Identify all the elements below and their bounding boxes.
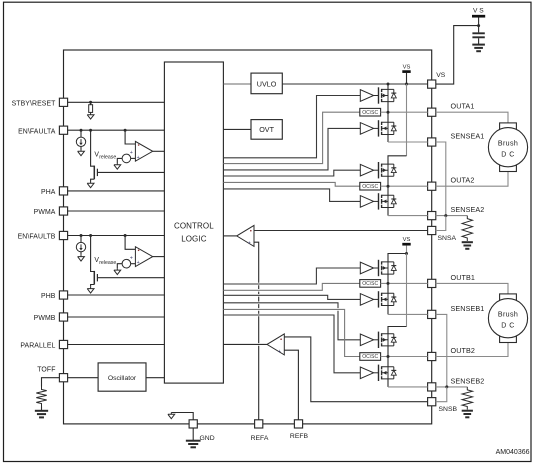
svg-text:OVT: OVT — [259, 125, 274, 134]
wire PHA to control logic — [68, 190, 165, 192]
VS supply symbol bridge B — [402, 237, 410, 254]
wire B low-side 1 source to SENSEB1 — [388, 306, 428, 315]
brush DC motor B — [488, 294, 527, 343]
wire VS to bridge A high-side 2 drain — [388, 84, 407, 164]
svg-text:+: + — [137, 260, 140, 266]
wire OUTA1 node — [381, 111, 428, 114]
wire UVLO to VS rail — [282, 83, 427, 85]
bus wire B low-side 1 gate — [223, 295, 360, 299]
fault comparator B — [135, 247, 152, 267]
V_release reference source B — [117, 255, 135, 268]
svg-text:PWMA: PWMA — [34, 209, 56, 216]
svg-text:OC\SC: OC\SC — [362, 110, 378, 116]
wire PHB to control logic — [68, 294, 165, 296]
svg-text:D C: D C — [501, 323, 515, 330]
wire TOFF to oscillator — [68, 377, 99, 379]
OC/SC block A1 — [360, 108, 381, 116]
svg-text:+: + — [130, 150, 133, 156]
bus wire A high-side 2 gate — [223, 170, 360, 176]
svg-text:SENSEA1: SENSEA1 — [451, 131, 485, 140]
pin OUTA2 — [428, 176, 475, 191]
pin TOFF — [37, 367, 67, 382]
pin SENSEA2 — [428, 205, 485, 220]
wire SENSEA1 to sense node A — [436, 142, 446, 216]
svg-text:+: + — [137, 155, 140, 161]
wire REFB to comparator B — [284, 350, 298, 420]
brush DC motor A — [488, 123, 527, 172]
sense comparator A — [237, 225, 254, 246]
svg-text:EN\FAULTB: EN\FAULTB — [18, 234, 56, 241]
wire PARALLEL to control logic — [68, 344, 165, 346]
wire A high-side 1 source to OUTA1 — [387, 102, 389, 113]
node sense B junction — [445, 385, 448, 388]
wire comparator A output to control logic — [223, 235, 236, 237]
fault comparator A — [135, 141, 152, 161]
wire SENSEB2 to sense resistor B — [436, 386, 468, 388]
svg-text:REFA: REFA — [251, 435, 269, 442]
VS supply symbol bridge A — [402, 64, 410, 84]
bus wire B low-side 2 gate — [223, 315, 360, 373]
release-switch MOSFET QB — [89, 234, 97, 287]
wire EN fault to comparator A input — [124, 129, 136, 144]
svg-text:PARALLEL: PARALLEL — [20, 343, 55, 350]
svg-text:PHB: PHB — [41, 293, 56, 300]
current source IA — [76, 129, 85, 150]
wire VS to bridge B high-side 1 drain — [388, 254, 407, 262]
pin PWMB — [34, 313, 68, 322]
svg-text:VS: VS — [403, 237, 411, 243]
release-switch MOSFET QA — [89, 129, 97, 182]
VS supply symbol top — [472, 8, 485, 33]
svg-text:UVLO: UVLO — [257, 80, 277, 89]
wire SNSA to comparator A — [254, 230, 428, 232]
wire A low-side 2 source to SENSEA2 — [388, 208, 428, 216]
wire OUTA2 to A low-side 2 drain — [387, 186, 389, 195]
wire SENSEA2 to sense resistor A — [436, 215, 468, 217]
svg-text:release: release — [99, 260, 116, 266]
wire REFA to comparator A — [254, 242, 259, 420]
gate driver and MOSFET A low-side 1 — [360, 120, 396, 136]
pull-down resistor on STBY\RESET — [89, 101, 93, 113]
svg-text:release: release — [99, 155, 116, 161]
svg-text:SENSEA2: SENSEA2 — [451, 205, 485, 214]
wire A high-side 2 source to OUTA2 — [387, 176, 389, 186]
svg-text:Oscillator: Oscillator — [108, 375, 137, 382]
V_release label A — [94, 152, 116, 161]
wire sense node B to SNSB pin — [436, 387, 447, 402]
OC/SC block A2 — [360, 182, 381, 190]
pin EN\FAULTA — [18, 126, 68, 135]
pin PHA — [41, 187, 68, 196]
node VS rail junction 1 — [387, 83, 390, 86]
signal ground below QA — [87, 182, 94, 188]
svg-text:PHA: PHA — [41, 189, 56, 196]
gate driver and MOSFET A high-side 2 — [360, 162, 396, 178]
svg-text:OUTA1: OUTA1 — [451, 102, 475, 111]
sense resistor R-SNSA — [462, 216, 472, 241]
svg-text:GND: GND — [200, 435, 215, 442]
wire CL to OVT — [223, 128, 251, 130]
wire STBY\RESET to control logic — [68, 101, 165, 103]
wire B high-side 2 source to OUTB2 — [387, 346, 389, 357]
V_release label B — [94, 257, 116, 266]
pin REFB — [290, 420, 309, 440]
pin OUTA1 — [428, 102, 475, 117]
decoupling capacitor C-VS — [472, 33, 484, 44]
svg-text:+: + — [130, 255, 133, 261]
wire sense node A to SNSA pin — [436, 216, 446, 231]
wire OUTB2 to motor B — [436, 343, 508, 357]
bus wire A OC/SC 1 control — [223, 112, 359, 163]
svg-text:PWMB: PWMB — [34, 315, 56, 322]
pin PWMA — [34, 207, 68, 216]
signal ground below STBY pull-down — [87, 113, 94, 119]
svg-text:AM040366: AM040366 — [496, 449, 530, 456]
signal ground below current source IA — [78, 150, 85, 156]
wire PWMB to control logic — [68, 316, 165, 318]
pin OUTB2 — [428, 346, 475, 361]
svg-text:D C: D C — [501, 152, 515, 159]
signal ground below QB — [87, 287, 94, 293]
svg-text:CONTROL: CONTROL — [174, 221, 214, 230]
wire CL to UVLO — [223, 83, 251, 85]
pin PHB — [41, 291, 68, 300]
sense resistor R-SNSB — [462, 387, 472, 410]
wire VS to bridge B high-side 2 drain — [388, 254, 407, 334]
ground below R-SNSA — [462, 242, 473, 249]
signal ground below V_release source A — [114, 163, 121, 169]
bus wire B OC/SC 1 control — [223, 283, 359, 290]
pin STBY\RESET — [12, 98, 68, 107]
gate driver and MOSFET A high-side 1 — [360, 87, 396, 103]
wire QA gate to control logic — [97, 171, 164, 173]
bus wire B OC/SC 2 control — [223, 309, 359, 356]
gate driver and MOSFET B low-side 2 — [360, 365, 396, 381]
pin REFA — [251, 420, 269, 442]
wire OUTA1 to A low-side 1 drain — [387, 112, 389, 122]
wire EN\FAULTA to control logic — [68, 129, 165, 131]
bus wire B high-side 2 gate — [223, 303, 360, 340]
pin GND — [189, 420, 215, 442]
wire OUTB1 node — [381, 282, 428, 285]
svg-text:SENSEB1: SENSEB1 — [451, 304, 485, 313]
wire B low-side 2 source to SENSEB2 — [388, 379, 428, 387]
wire PWMA to control logic — [68, 210, 165, 212]
wire comparator B output to control logic — [223, 343, 267, 346]
wire OUTA1 to motor A — [436, 112, 508, 123]
OVT block — [251, 120, 282, 140]
wire OUTB2 to B low-side 2 drain — [387, 357, 389, 367]
svg-text:TOFF: TOFF — [37, 367, 55, 374]
svg-text:SNSA: SNSA — [438, 235, 457, 242]
wire OUTB1 to motor B — [436, 283, 508, 294]
figure reference AM040366 — [496, 449, 530, 456]
V_release reference source A — [117, 150, 135, 163]
bus wire A high-side 1 gate — [223, 96, 360, 158]
pin VS — [428, 72, 446, 88]
svg-text:OUTB2: OUTB2 — [451, 346, 475, 355]
node VS rail junction 2 — [405, 83, 408, 86]
bus wire A low-side 1 gate — [223, 128, 360, 170]
svg-text:VS: VS — [403, 64, 411, 70]
bus wire B high-side 1 gate — [223, 268, 360, 284]
svg-text:+: + — [278, 349, 281, 355]
svg-text:+: + — [248, 240, 251, 246]
wire A low-side 1 source to SENSEA1 — [388, 135, 428, 143]
pin SENSEB1 — [428, 304, 485, 319]
pin SENSEB2 — [428, 376, 485, 391]
svg-text:OC\SC: OC\SC — [362, 281, 378, 287]
gate driver and MOSFET B high-side 1 — [360, 260, 396, 276]
substrate arrow to GND — [168, 413, 193, 420]
gate driver and MOSFET A low-side 2 — [360, 193, 396, 209]
gate driver and MOSFET B low-side 1 — [360, 291, 396, 307]
svg-text:Brush: Brush — [498, 311, 518, 319]
signal ground below V_release source B — [114, 268, 121, 274]
svg-text:LOGIC: LOGIC — [181, 234, 207, 243]
ground below TOFF resistor — [35, 411, 48, 418]
ground below R-SNSB — [462, 411, 473, 418]
wire SENSEB1 to sense node B — [436, 314, 447, 387]
wire EN\FAULTB to control logic — [68, 235, 165, 237]
gate driver and MOSFET B high-side 2 — [360, 332, 396, 348]
svg-text:SENSEB2: SENSEB2 — [451, 376, 485, 385]
CONTROL LOGIC block U-CL — [164, 62, 223, 383]
OC/SC block B2 — [360, 353, 381, 361]
node VS top junction — [477, 24, 480, 27]
ground below capacitor — [472, 45, 485, 52]
current source IB — [76, 234, 85, 255]
wire VS supply to VS pin — [436, 26, 479, 85]
pin OUTB1 — [428, 273, 475, 288]
wire VS to bridge A high-side 1 drain — [387, 84, 389, 89]
svg-text:EN\FAULTA: EN\FAULTA — [18, 128, 56, 135]
UVLO block — [251, 73, 282, 94]
pin SNSB — [428, 398, 458, 413]
wire comparator A output to control logic — [153, 150, 165, 152]
pin SENSEA1 — [428, 131, 485, 146]
svg-text:V S: V S — [473, 8, 484, 15]
svg-text:STBY\RESET: STBY\RESET — [12, 100, 57, 107]
OC/SC block B1 — [360, 280, 381, 288]
ground symbol below GND pin — [186, 428, 201, 447]
svg-text:OC\SC: OC\SC — [362, 184, 378, 190]
wire SNSB to comparator B — [284, 337, 427, 402]
svg-text:SNSB: SNSB — [439, 406, 458, 413]
svg-text:Brush: Brush — [498, 140, 518, 148]
svg-text:OC\SC: OC\SC — [362, 354, 378, 360]
sense comparator B — [267, 334, 284, 355]
wire OUTA2 node — [381, 185, 428, 188]
pin EN\FAULTB — [18, 231, 68, 240]
bus wire A OC/SC 2 control — [223, 182, 359, 186]
wire OUTA2 to motor A — [436, 172, 508, 187]
wire OUTB2 node — [381, 355, 428, 358]
TOFF external resistor — [36, 378, 59, 411]
bus wire A low-side 2 gate — [223, 189, 360, 202]
pin PARALLEL — [20, 340, 67, 349]
svg-text:REFB: REFB — [290, 433, 309, 440]
wire oscillator to control logic — [146, 377, 164, 379]
signal ground below current source IB — [78, 255, 85, 261]
pin SNSA — [428, 226, 457, 242]
wire OUTB1 to B low-side 1 drain — [387, 283, 389, 293]
svg-text:OUTA2: OUTA2 — [451, 176, 475, 185]
wire QB gate to control logic — [97, 277, 164, 279]
wire comparator B output to control logic — [153, 256, 165, 258]
node VS bridge B junction — [405, 252, 408, 255]
wire EN fault to comparator B input — [124, 234, 136, 249]
node sense A junction — [444, 214, 447, 217]
svg-text:VS: VS — [436, 72, 446, 79]
wire B high-side 1 source to OUTB1 — [387, 274, 389, 283]
IC boundary rectangle — [64, 50, 432, 424]
Oscillator block — [98, 363, 146, 391]
svg-text:OUTB1: OUTB1 — [451, 273, 475, 282]
